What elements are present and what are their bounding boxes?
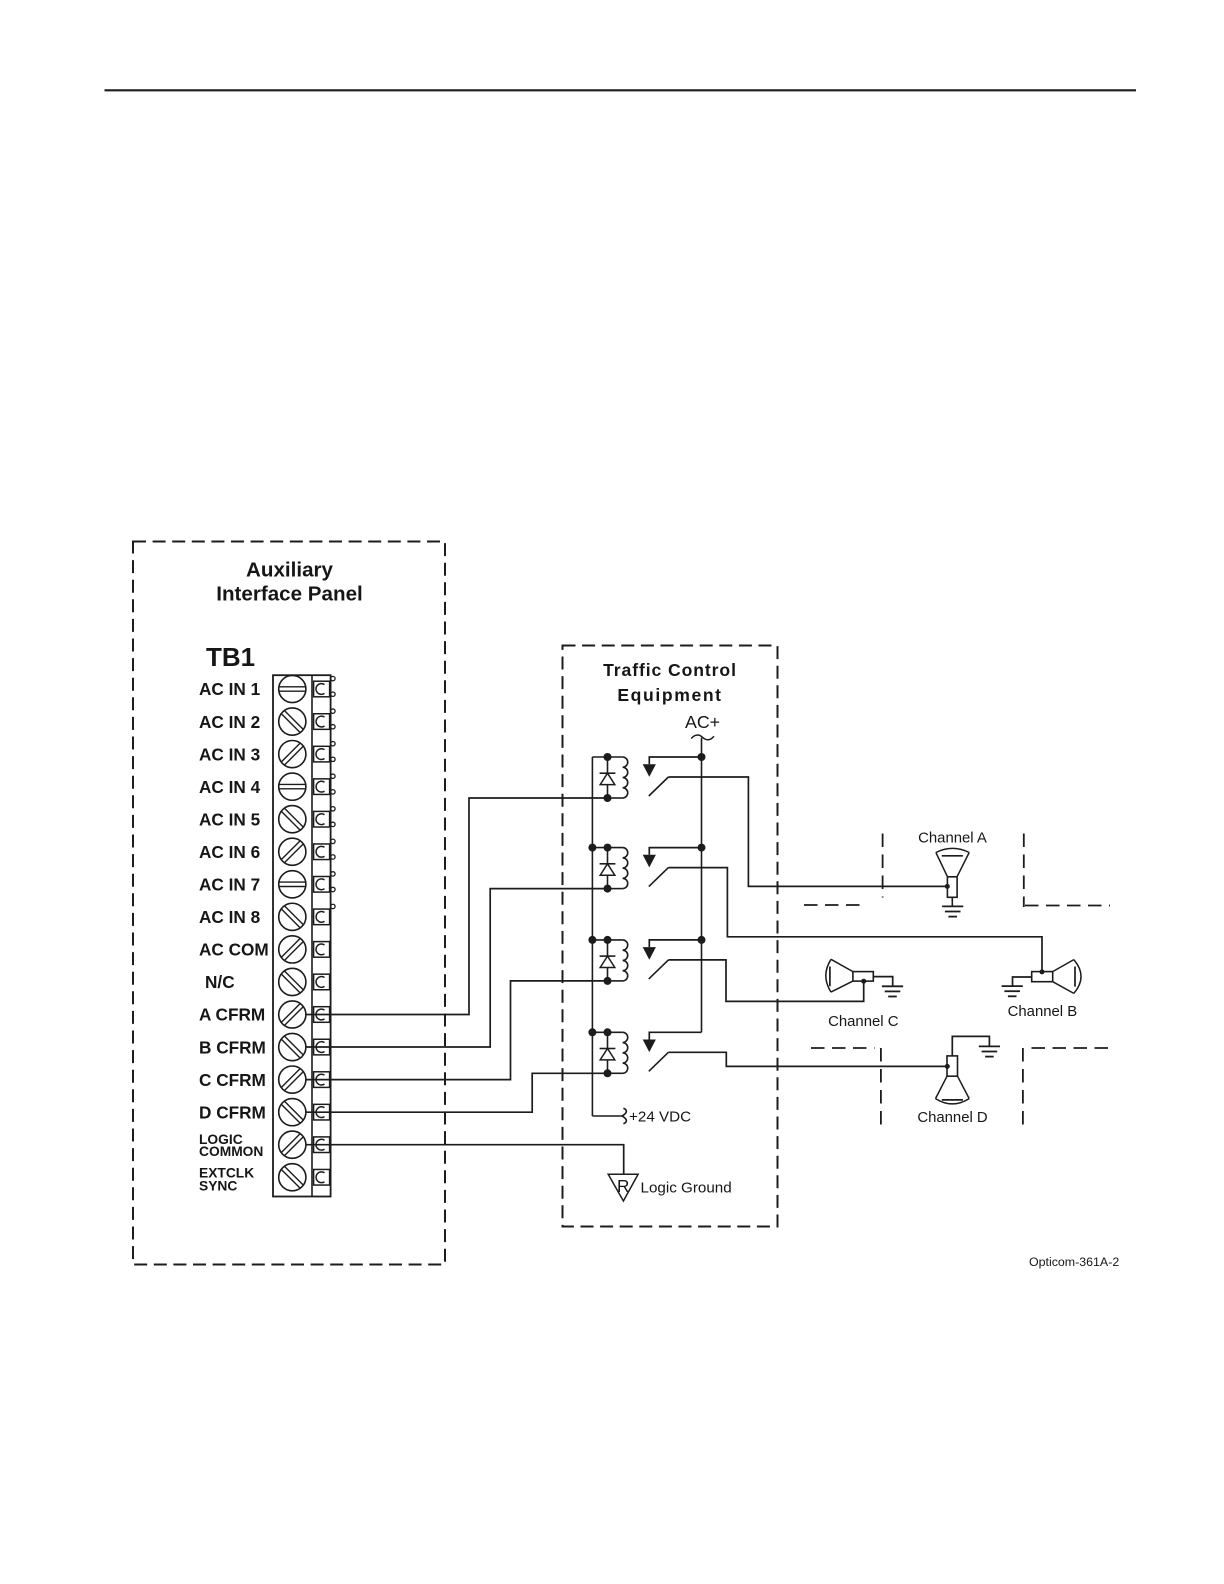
svg-text:D CFRM: D CFRM: [199, 1102, 266, 1122]
svg-text:AC COM: AC COM: [199, 940, 269, 960]
svg-text:AC IN 8: AC IN 8: [199, 907, 261, 927]
svg-text:COMMON: COMMON: [199, 1144, 263, 1159]
svg-text:AC IN 3: AC IN 3: [199, 744, 260, 764]
svg-text:Equipment: Equipment: [617, 685, 722, 705]
svg-text:Traffic Control: Traffic Control: [603, 660, 737, 680]
svg-text:Channel B: Channel B: [1008, 1004, 1078, 1020]
svg-text:C CFRM: C CFRM: [199, 1070, 266, 1090]
svg-text:A CFRM: A CFRM: [199, 1005, 265, 1025]
svg-text:AC IN 4: AC IN 4: [199, 777, 261, 797]
svg-text:+24 VDC: +24 VDC: [629, 1109, 691, 1126]
svg-text:R: R: [617, 1176, 629, 1196]
svg-text:AC+: AC+: [685, 712, 720, 732]
svg-text:Opticom-361A-2: Opticom-361A-2: [1029, 1255, 1119, 1269]
svg-text:AC IN 2: AC IN 2: [199, 712, 260, 732]
svg-text:Channel A: Channel A: [918, 831, 987, 847]
svg-text:Logic Ground: Logic Ground: [641, 1179, 732, 1196]
svg-text:B CFRM: B CFRM: [199, 1037, 266, 1057]
svg-text:TB1: TB1: [206, 642, 255, 672]
svg-text:AC IN 1: AC IN 1: [199, 679, 261, 699]
svg-text:N/C: N/C: [205, 972, 235, 992]
svg-text:AC IN 6: AC IN 6: [199, 842, 260, 862]
svg-text:Channel C: Channel C: [828, 1014, 899, 1030]
svg-text:Interface Panel: Interface Panel: [216, 583, 363, 606]
svg-text:SYNC: SYNC: [199, 1178, 237, 1193]
svg-text:AC IN 7: AC IN 7: [199, 875, 260, 895]
svg-text:Auxiliary: Auxiliary: [246, 559, 334, 582]
svg-text:Channel D: Channel D: [917, 1110, 988, 1126]
svg-text:AC IN 5: AC IN 5: [199, 809, 261, 829]
